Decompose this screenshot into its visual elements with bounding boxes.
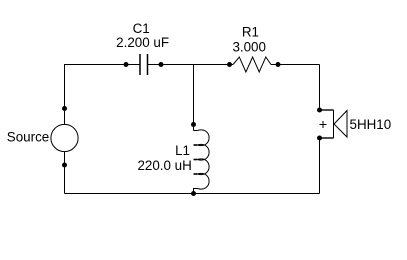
svg-text:2.200 uF: 2.200 uF (116, 35, 169, 50)
speaker LS1 plus polarity mark (320, 121, 327, 128)
wire right vertical lower (319, 138, 321, 194)
wire top rail left segment (65, 64, 141, 66)
resistor R1 zigzag (233, 57, 271, 72)
wire middle branch vertical (193, 65, 195, 131)
speaker LS1 top stub (320, 109, 334, 111)
speaker LS1 driver bar (333, 110, 335, 138)
junction dot below source (62, 163, 67, 168)
svg-text:C1: C1 (133, 21, 150, 36)
svg-text:220.0 uH: 220.0 uH (137, 158, 191, 173)
speaker LS1 cone triangle (334, 111, 347, 138)
wire left vertical below source (64, 152, 66, 194)
svg-text:L1: L1 (175, 143, 190, 158)
wire top rail resistor-to-corner segment (271, 64, 320, 66)
svg-text:5HH10: 5HH10 (350, 117, 392, 132)
junction dot above inductor (191, 122, 196, 127)
svg-text:Source: Source (7, 129, 49, 144)
wire top rail capacitor-to-resistor segment (148, 64, 234, 66)
junction dot above source (62, 106, 67, 111)
junction dot inductor bottom node (191, 191, 196, 196)
wire bottom rail (65, 193, 320, 195)
junction dot speaker top (317, 108, 322, 113)
junction dot capacitor right (159, 62, 164, 67)
wire right vertical upper (319, 65, 321, 111)
source V1 circle (51, 124, 78, 151)
wire left vertical above source (64, 64, 66, 124)
junction dot resistor right (276, 62, 281, 67)
junction dot resistor left (227, 62, 232, 67)
capacitor C1 plates (140, 54, 148, 75)
svg-text:R1: R1 (242, 24, 259, 39)
svg-text:3.000: 3.000 (232, 39, 266, 54)
inductor L1 coil (194, 130, 210, 194)
junction dot capacitor left (124, 62, 129, 67)
junction dot speaker bottom (317, 136, 322, 141)
speaker LS1 bottom stub (320, 137, 334, 139)
